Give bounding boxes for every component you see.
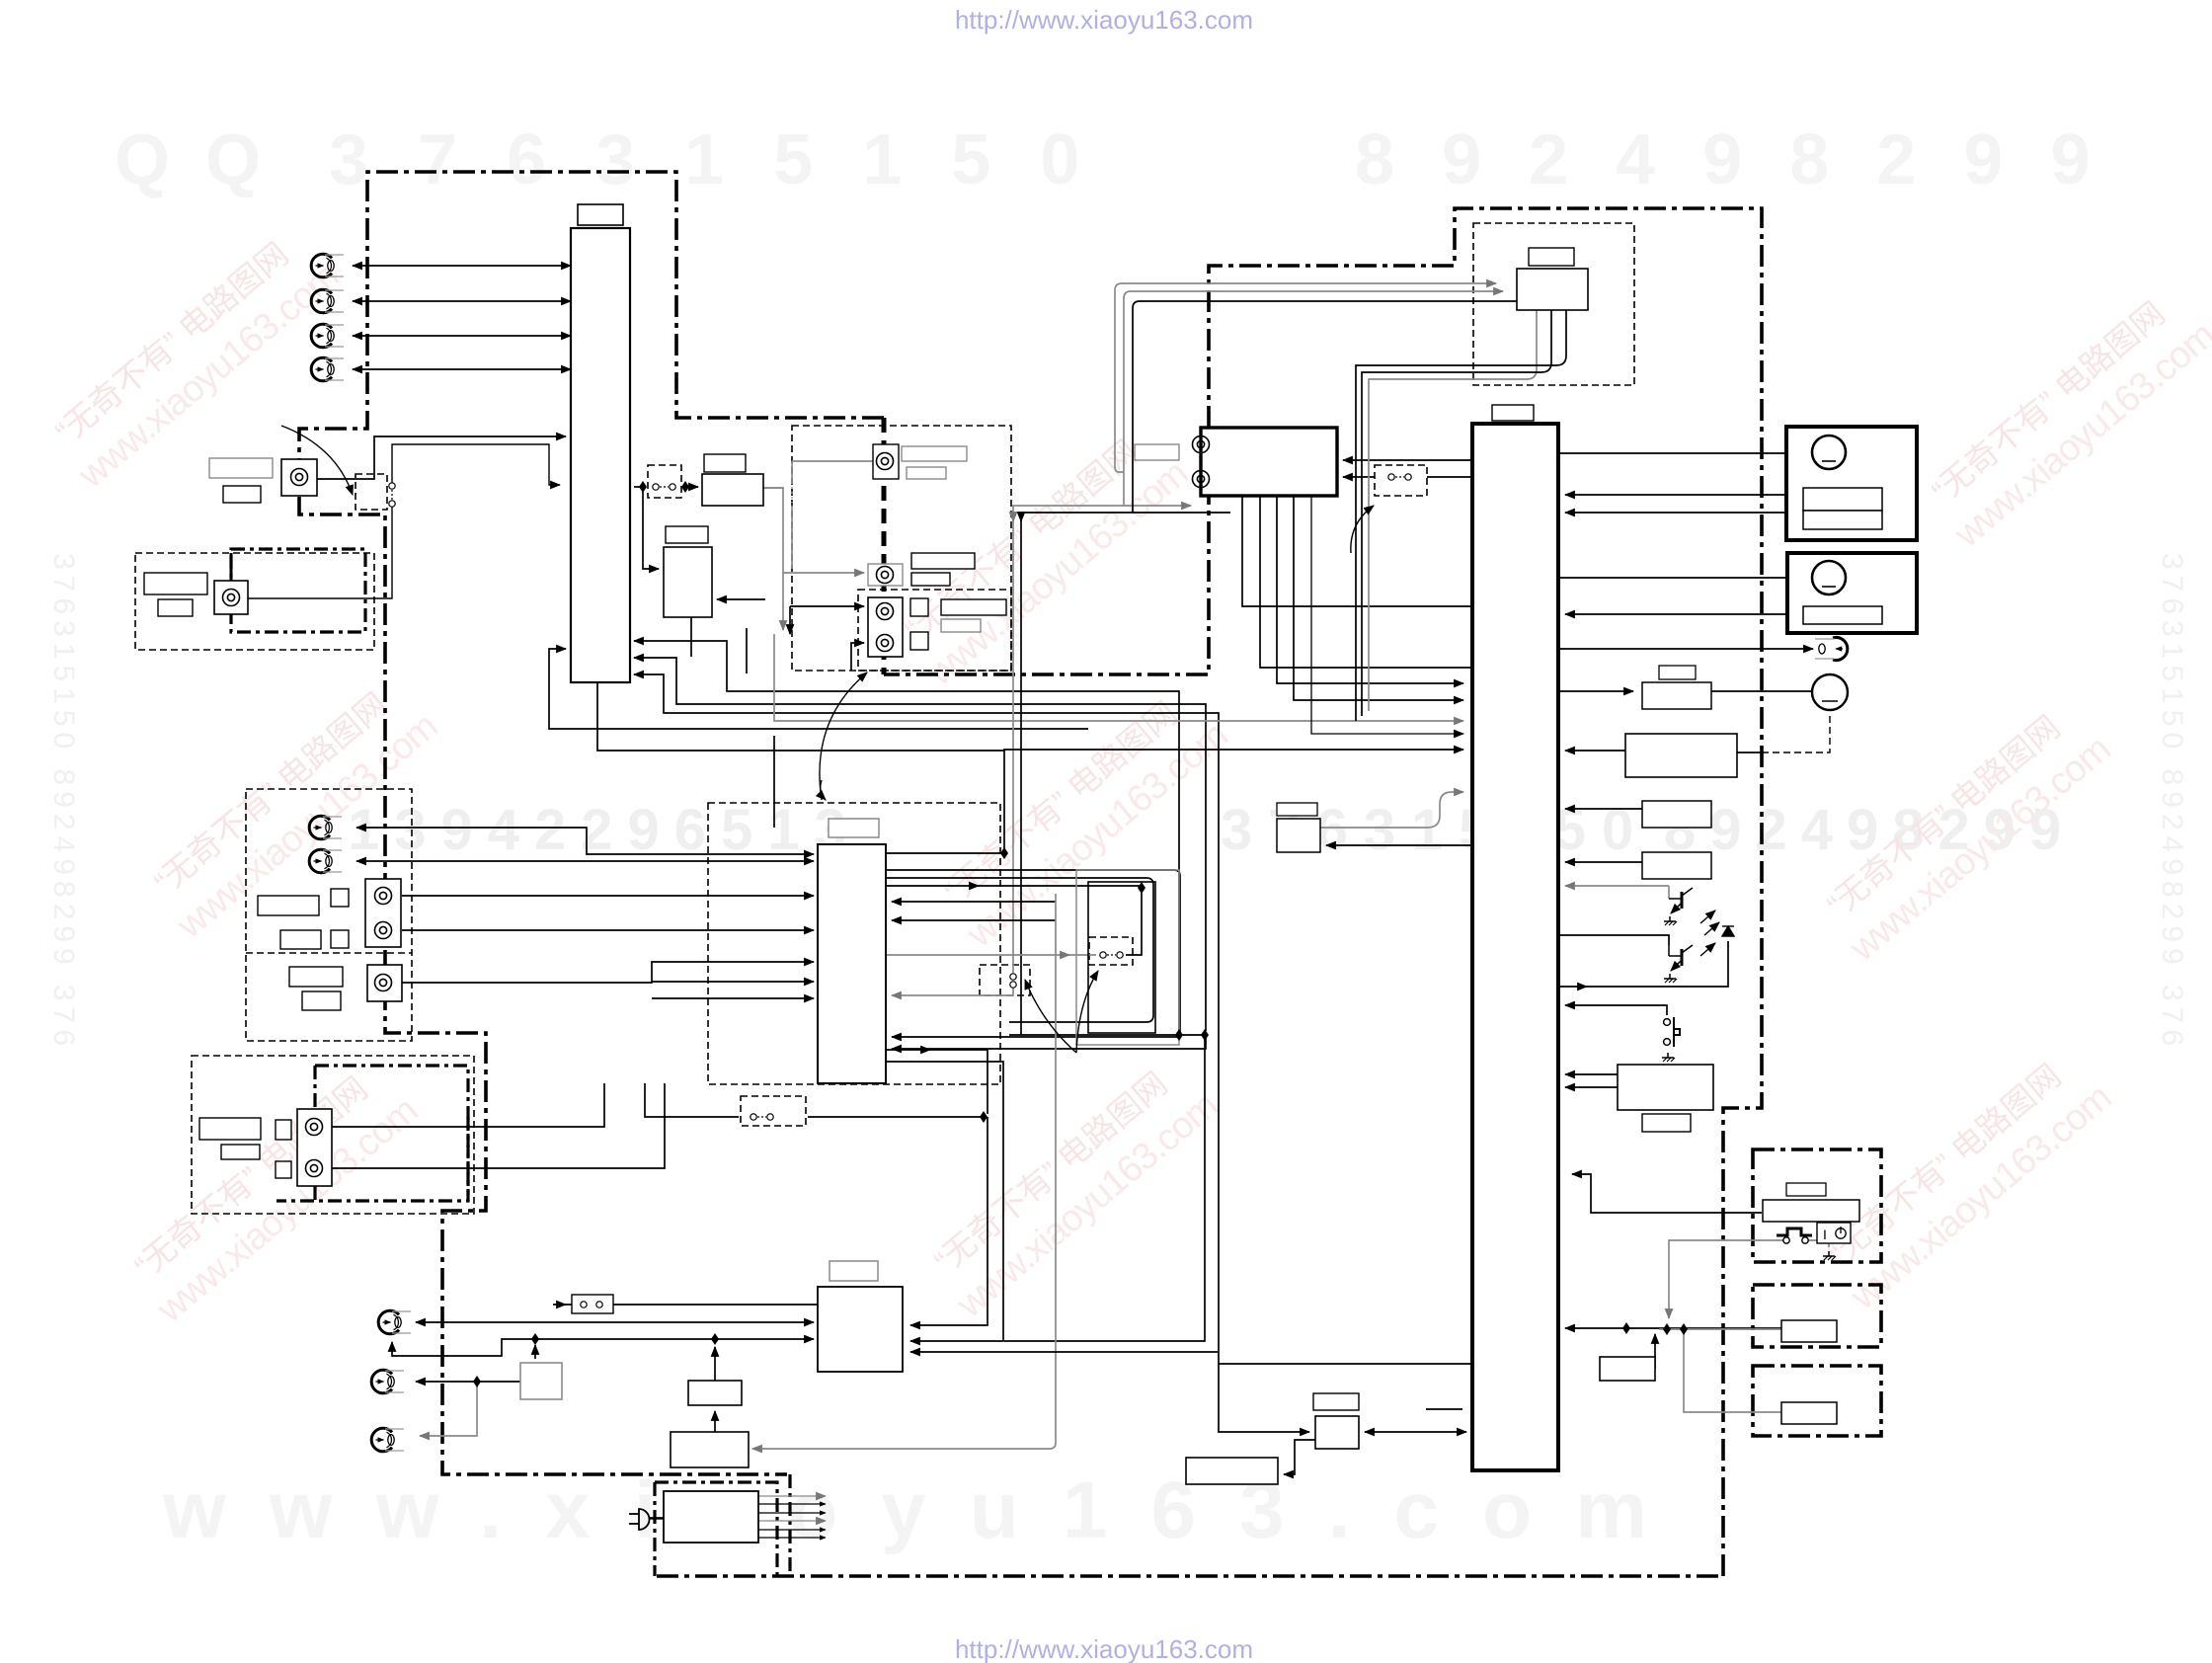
wire aux jack feed 2: [652, 981, 814, 983]
dash-dot power transformer box: [655, 1482, 777, 1576]
wire video out 3 to jack: [353, 335, 571, 337]
wire arrow stub y1063: [923, 1049, 930, 1051]
aux label 2: [302, 991, 341, 1010]
wire dsp out bottom 1: [886, 1050, 987, 1114]
ground ps unit: [1823, 1251, 1836, 1260]
wire ps switch gray right: [1808, 1240, 1829, 1247]
FL power box: [1625, 734, 1737, 777]
wire tuner to main IC: [1343, 459, 1472, 461]
wire micon in via connector: [553, 1304, 818, 1306]
main system IC block: [1472, 424, 1558, 1470]
wire video connector up leg: [392, 444, 560, 485]
annotation arrow into main board: [821, 780, 826, 800]
CD jack 4: [877, 635, 894, 652]
inner digital box black: [1088, 882, 1155, 1033]
sub box: [664, 547, 712, 617]
wire black riser CD: [789, 606, 791, 634]
aux jack: [375, 975, 392, 991]
wire standby rail: [1659, 1328, 1781, 1330]
wire led anode return: [1558, 941, 1728, 987]
connector solid box micon in: [572, 1295, 613, 1313]
svg-text:I: I: [1823, 1227, 1827, 1242]
CD label 1: [902, 446, 967, 461]
dashed connector box near tall block: [648, 465, 681, 498]
wire am return gray: [420, 1382, 477, 1436]
bottom right label rect: [1642, 1114, 1691, 1132]
CD label 6: [941, 619, 981, 632]
wire connector to DSP box: [685, 486, 698, 488]
wire video out 1 to jack: [353, 265, 571, 267]
dashed box MD section outer: [192, 1056, 474, 1214]
micon box: [818, 1287, 903, 1372]
wire tuner to main IC 2 via connector: [1343, 476, 1472, 478]
wire into dsp y913: [892, 901, 1056, 903]
dashed box CD jack section: [792, 426, 1011, 671]
wire dsp right y897: [886, 885, 1142, 887]
video jack 4: [311, 357, 344, 381]
front AV label 1: [209, 458, 273, 478]
tape jack in 2: [309, 849, 342, 873]
wire micon arrow stub: [559, 1304, 566, 1306]
svg-text:http://www.xiaoyu163.com: http://www.xiaoyu163.com: [955, 5, 1253, 35]
sub unit 2 rect: [1781, 1320, 1837, 1342]
wire tape out R: [402, 929, 814, 931]
wire crystal to sub rect: [1284, 1440, 1315, 1474]
wire hybrid output curve 3: [1356, 310, 1566, 721]
wire CD jack gray drop 2: [791, 506, 793, 569]
wire down arrow stub gray: [1012, 514, 1014, 521]
heavy dashed cable line vertical (CD block): [882, 418, 887, 674]
wire dsp out bottom 2: [886, 1062, 1003, 1321]
wire md jack 1 link: [332, 1083, 604, 1127]
wire connector gray circles CD: [791, 487, 793, 503]
CD label 5: [941, 599, 1006, 615]
micon label: [829, 1261, 878, 1281]
wire pin down 2: [746, 628, 748, 673]
wire bus line 2: [634, 658, 1206, 1031]
front AV jack box: [281, 459, 317, 496]
CD jack 2: [877, 567, 894, 584]
wire big rect return 1: [1565, 1073, 1621, 1075]
main IC label: [1492, 405, 1534, 421]
wire gray riser continues: [782, 573, 784, 630]
bottom sub rect: [1186, 1458, 1278, 1484]
dash-dot vertical pair right of MD box: [466, 1117, 469, 1201]
CD label 3: [911, 553, 975, 569]
speaker 2 icon: [1812, 561, 1846, 594]
wire headphone link: [1558, 648, 1813, 650]
wire big rect return 2: [1565, 1086, 1621, 1088]
md double jack box: [297, 1109, 332, 1186]
transistor Q1: [1669, 888, 1693, 913]
FL tube dash: [1822, 700, 1838, 702]
wire into dsp y1050: [892, 1036, 1179, 1038]
wire transformer out 6: [758, 1537, 826, 1539]
wire junction horizontal y1048: [1009, 1034, 1205, 1036]
connector circles power feed: [750, 1114, 773, 1120]
aux label 1: [289, 967, 343, 987]
junction diamond fm: [711, 1333, 719, 1345]
wire power feed drop 2: [910, 1321, 1003, 1341]
md jack 2: [306, 1160, 323, 1177]
svg-text:www.xiaoyu163.com: www.xiaoyu163.com: [162, 1465, 1691, 1555]
wire video out 2 to jack: [353, 300, 571, 302]
wire arrow stub y897: [972, 885, 979, 887]
wire key block return 1: [1565, 808, 1642, 810]
wire bus line 3: [634, 674, 1309, 1432]
wire matching to micon: [535, 1338, 814, 1340]
md label 1: [199, 1118, 261, 1140]
video jack 1: [311, 254, 344, 277]
crystal label: [1313, 1393, 1359, 1410]
wire CD gray riser to tuner: [1013, 506, 1191, 973]
wire tuner pin 1: [1242, 496, 1472, 606]
wire micon riser to main IC: [1004, 750, 1463, 853]
pink diagonal watermarks: [40, 220, 2212, 1332]
tape square 1: [331, 889, 349, 907]
wire front AV jack to switch block: [316, 436, 566, 479]
ground Q2: [1664, 974, 1677, 983]
CD jack 3: [877, 603, 894, 620]
junction diamond y1048 a: [1175, 1029, 1183, 1041]
wire transformer out 4: [758, 1520, 826, 1522]
wire ps switch gray line: [1669, 1240, 1783, 1318]
wire fm return riser: [392, 1339, 535, 1356]
md square 1: [276, 1120, 291, 1140]
DAC label box: [704, 454, 746, 472]
junction diamond y1048 b: [1201, 1029, 1209, 1041]
video in jack: [223, 590, 240, 606]
annotation arc CB1: [1025, 980, 1076, 1053]
DAC box: [702, 474, 763, 506]
ground Q1: [1664, 916, 1677, 925]
wire to CD jack 3: [790, 605, 864, 607]
connector circles CB1: [1010, 974, 1016, 988]
wire loop bottom right: [1004, 1035, 1205, 1341]
wire FL box return: [1565, 750, 1625, 752]
wire right step in: [1572, 1174, 1762, 1213]
sub unit 3 rect: [1781, 1402, 1837, 1424]
wire led drive 2: [1558, 935, 1669, 945]
push power switch: [1664, 1017, 1680, 1047]
wire bus line 4: [597, 683, 1004, 751]
wire power on branch down: [1654, 1334, 1656, 1369]
sub label box: [666, 526, 708, 543]
chassis dash-dot right boundary: [884, 208, 1762, 1576]
wire dsp right y889 loop: [886, 878, 1153, 1022]
wire reg box up arrow: [714, 1411, 716, 1432]
crystal box: [1315, 1416, 1359, 1449]
wire switch block input arrow: [634, 486, 643, 488]
wire tuner pin 2: [1260, 496, 1472, 668]
hybrid power amp box: [1517, 269, 1588, 310]
FL label small: [1659, 666, 1696, 679]
CD jack L box: [873, 444, 899, 479]
wire hybrid gray feed 1: [1115, 283, 1496, 466]
wire matching box up arrow: [534, 1345, 536, 1359]
annotation arc tuner connector: [1351, 506, 1374, 553]
led arrows opto: [1700, 911, 1719, 956]
video in jack box: [214, 581, 248, 614]
wire power feed drop: [910, 1117, 987, 1325]
wire tape jack row 2: [356, 860, 814, 862]
wire dsp in extra: [652, 997, 814, 999]
fm am jack 1: [378, 1310, 411, 1334]
CD label 4: [911, 573, 950, 586]
wire main IC right: to speaker 1: [1558, 452, 1813, 454]
wire power feed connector: [645, 1083, 739, 1117]
wire tape out L: [402, 895, 814, 897]
dashed divider cassette: [246, 952, 412, 954]
junction diamond standby 1: [1663, 1323, 1671, 1335]
key block rect 1: [1642, 801, 1711, 828]
wire am jack feed: [416, 1381, 520, 1383]
wire ac plug to transformer: [650, 1517, 664, 1519]
dashed box CD lower jack group: [858, 590, 1011, 671]
video jack 3: [311, 324, 344, 348]
wire FL dashed segment: [1762, 713, 1830, 752]
central DSP block: [818, 844, 886, 1083]
tuner ant jack 2: [1193, 471, 1210, 488]
wire standby diamond drop: [1684, 1329, 1781, 1412]
wire tape jack row 1: [356, 828, 814, 854]
wire speaker1 return 1: [1565, 494, 1803, 496]
wire CD black lower run: [1021, 513, 1230, 1035]
tape deck label 1: [258, 896, 319, 915]
wire box to CD riser (gray): [763, 488, 783, 573]
led diode: [1722, 926, 1734, 936]
CD label 2: [907, 467, 946, 479]
dash-dot box sub unit 3: [1753, 1366, 1881, 1436]
wire hybrid black feed: [1133, 301, 1517, 513]
wire gray to CB2: [886, 954, 1096, 956]
junction diamond standby 2: [1680, 1323, 1688, 1335]
ground push switch: [1662, 1053, 1675, 1062]
dash-dot inner box MD (bottom-left): [276, 1066, 468, 1201]
CD jack 2 box: [868, 564, 903, 586]
junction diamond sw1: [639, 481, 647, 493]
wire transformer out 3: [758, 1512, 826, 1514]
junction diamond am: [473, 1376, 481, 1387]
wire tuner pin 4: [1294, 496, 1463, 700]
video in label 2: [158, 599, 193, 616]
speaker1 rect 1: [1803, 488, 1882, 511]
key block rect 2: [1642, 852, 1711, 879]
tape double jack box: [365, 879, 401, 947]
wire power on bus right: [1626, 1327, 1781, 1329]
aux jack box: [367, 965, 402, 1001]
front AV label 2: [223, 486, 261, 503]
junction diamond y1131: [980, 1111, 987, 1123]
fm am jack 2: [371, 1370, 404, 1393]
front AV jack: [291, 469, 308, 486]
wire video out 4 to jack: [353, 368, 571, 370]
dashed connector box front AV: [355, 474, 387, 510]
tall block label: [578, 204, 623, 225]
tape jack L: [375, 888, 392, 905]
fm am jack 3: [371, 1428, 404, 1452]
video in stub line: [230, 553, 233, 581]
dash-dot box sub unit 2: [1753, 1285, 1881, 1347]
power transformer box: [664, 1491, 758, 1543]
reg box: [671, 1432, 749, 1467]
headphone jack symbol: [1815, 638, 1848, 661]
dashed box video section outer: [135, 553, 374, 650]
svg-text:376315150: 376315150: [329, 120, 1129, 199]
wire bus line 1: [634, 641, 1179, 1031]
wire to CD jack 2 (gray): [783, 572, 864, 574]
FL driver box: [1642, 682, 1711, 709]
annotation arc CB2: [1076, 971, 1098, 1053]
junction diamond sw2: [681, 481, 689, 493]
inner digital box gray: [1076, 870, 1179, 1045]
connector circles near tall block: [653, 484, 675, 490]
wire led arrow stub: [1580, 986, 1587, 988]
wire speaker1 return 2: [1565, 512, 1803, 514]
video in label 1: [144, 573, 207, 594]
reset IC label box: [1277, 803, 1317, 816]
wire transformer out 2: [758, 1503, 826, 1505]
wire hybrid output curve 1 (gray): [1369, 310, 1537, 711]
matching box: [520, 1363, 562, 1399]
svg-text:13942296513: 13942296513: [348, 798, 861, 862]
rocker switch icon: [1817, 1223, 1851, 1243]
CD double jack box: [868, 597, 903, 657]
wire DSP sub feed: [643, 487, 659, 569]
wire aux jack feed: [402, 962, 814, 983]
speaker box 2: [1787, 553, 1917, 633]
bottom right big rect: [1618, 1065, 1713, 1110]
wire CD jack gray link: [792, 460, 873, 462]
wire md jack 2 link: [332, 1083, 665, 1168]
wire key block return 2: [1565, 861, 1642, 863]
dashed box cassette section: [246, 789, 412, 1041]
wire into dsp y1062: [892, 1037, 1206, 1049]
front panel / chassis dash-dot boundary left: [299, 172, 884, 1474]
junction diamond y864: [1000, 847, 1008, 859]
wire main IC to clock box: [1326, 844, 1472, 846]
connector circles tuner: [1388, 474, 1411, 480]
md square 2: [276, 1161, 291, 1178]
video jack 2: [311, 289, 344, 313]
wire power switch sense: [1565, 1005, 1667, 1015]
FL tube circle: [1812, 674, 1848, 710]
md jack 1: [306, 1119, 323, 1136]
wire DSP box right gray: [763, 487, 783, 489]
wire hybrid gray jog: [1115, 466, 1124, 472]
tape square 2: [331, 930, 349, 948]
wire sub box in from riser: [717, 598, 765, 600]
svg-text:376315150 892498299 376: 376315150 892498299 376: [47, 553, 80, 1052]
wire gray bus feed: [774, 634, 1463, 721]
tuner label left: [1135, 444, 1179, 460]
wire main IC to speaker 2: [1558, 577, 1813, 579]
tuner ant jack 1: [1193, 436, 1210, 453]
tape jack in 1: [309, 816, 342, 839]
wire far right feed y1381: [1219, 1363, 1470, 1365]
dashed connector box power feed: [741, 1096, 806, 1126]
wire crystal dash mark: [1426, 1408, 1462, 1410]
CD square 2: [910, 632, 928, 650]
wire into dsp y932: [892, 919, 1056, 921]
wire main IC to FL driver: [1558, 690, 1633, 692]
wire S-curve to main IC (gray): [1320, 792, 1463, 828]
wire dsp right y864: [886, 852, 1004, 854]
wire fm jack feed: [416, 1321, 814, 1323]
svg-text:376315150 892498299 376: 376315150 892498299 376: [2156, 553, 2188, 1052]
wire video in from jack: [248, 507, 392, 598]
wire hybrid output curve 2: [1362, 310, 1551, 716]
hybrid label box: [1529, 248, 1574, 266]
power switch unit label: [1786, 1183, 1826, 1196]
tape jack R: [375, 922, 392, 939]
wire transformer out 5: [758, 1529, 826, 1531]
wire power feed connector right: [808, 1116, 984, 1118]
speaker1 rect 2: [1803, 511, 1882, 529]
wire y897 riser to connector: [1126, 888, 1142, 955]
junction diamond match: [531, 1333, 539, 1345]
wire transformer out 1: [758, 1495, 826, 1497]
reg upper box: [688, 1381, 742, 1405]
ac plug symbol: [629, 1509, 664, 1530]
svg-text:QQ: QQ: [115, 120, 296, 199]
tall block U1 switcher: [571, 228, 630, 682]
wire dsp right y881 loop: [886, 870, 1180, 1035]
connector circles micon in: [581, 1302, 602, 1307]
speaker box 1: [1786, 427, 1917, 540]
transistor Q2: [1669, 945, 1693, 971]
wire tuner pin 3: [1277, 496, 1463, 683]
tape deck label 2: [280, 930, 321, 949]
CD jack L: [877, 453, 894, 470]
dash-dot box power switch unit: [1753, 1149, 1881, 1262]
CD square 1: [910, 598, 928, 616]
wire S7 feed y1369: [910, 1351, 1218, 1353]
power box right小: [1600, 1357, 1655, 1381]
wire tall block loop left: [549, 649, 1088, 729]
wire to CD jack 4 lower: [851, 643, 864, 671]
wire down arrow stub black: [1020, 514, 1022, 521]
junction diamond right bus: [1622, 1322, 1630, 1334]
wire gray arrow stub CB2: [1063, 954, 1069, 956]
reset IC box: [1277, 819, 1320, 852]
power switch unit rect: [1763, 1200, 1859, 1222]
wire FL box dashed link: [1737, 752, 1762, 753]
wire power on bus: [1565, 1327, 1626, 1329]
speaker2 rect: [1803, 606, 1882, 624]
wire crystal link: [1365, 1431, 1466, 1433]
md label 2: [221, 1145, 260, 1159]
wire CB1 gray drop: [892, 985, 1013, 995]
wire reg upper box up arrow: [714, 1347, 716, 1381]
svg-text:892498299: 892498299: [1355, 120, 2137, 199]
dashed connector box center CB1: [980, 965, 1030, 995]
wire sub box pin down: [690, 617, 692, 657]
dashed box power amp hybrid (top right): [1473, 223, 1634, 385]
dash-dot inner box video (top-left): [231, 549, 365, 632]
tuner front end block: [1201, 428, 1337, 496]
wire led drive gray riser: [1668, 886, 1670, 899]
wire FL driver to tube: [1711, 690, 1813, 692]
connector circles CB2: [1100, 952, 1123, 958]
wire gray long to reg box: [752, 894, 1056, 1449]
junction diamond y899: [1138, 882, 1145, 894]
wire tuner pin 5: [1311, 496, 1463, 734]
chassis dash-dot bottom boundary: [657, 1574, 1723, 1578]
dash-dot vertical at transformer right: [788, 1474, 791, 1576]
svg-text:http://www.xiaoyu163.com: http://www.xiaoyu163.com: [955, 1634, 1253, 1663]
wire hybrid gray feed 2: [1124, 291, 1503, 506]
